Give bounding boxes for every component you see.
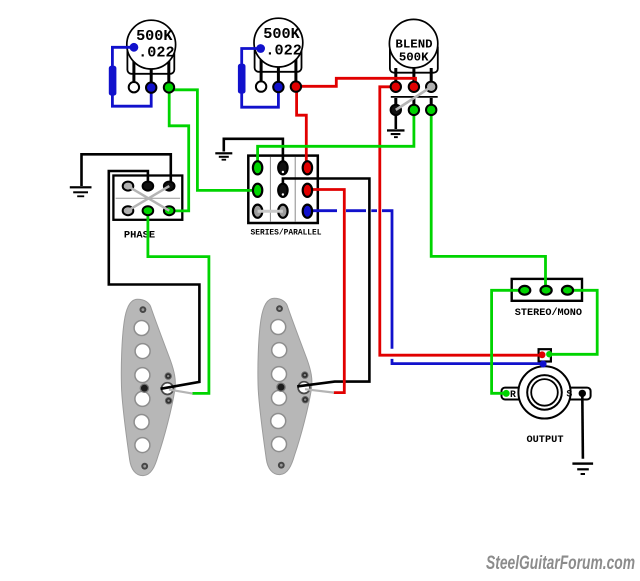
wire gray S1 cross jumper B <box>128 186 170 211</box>
P3 bottom lug 1 <box>391 105 401 115</box>
wire gray P3 bottom-left to top-right lug <box>396 87 431 110</box>
output jack J1 body <box>502 349 591 418</box>
svg-text:SteelGuitarForum.com: SteelGuitarForum.com <box>486 553 635 574</box>
svg-text:500K: 500K <box>399 51 429 65</box>
wire gray PU1 pigtail <box>169 390 193 394</box>
J1 ring blue dot <box>540 361 547 368</box>
S3 lug 1 <box>519 286 530 295</box>
svg-text:.022: .022 <box>265 41 301 59</box>
S2 lug row2 col2 <box>278 184 287 197</box>
wire blue dashed S2 bottom-right lug to J1 ring (blue dot) <box>307 211 541 364</box>
wire green P3 right bottom lug to S3 middle lug <box>431 111 545 288</box>
svg-text:PHASE: PHASE <box>124 229 155 241</box>
S1 lug bottom-left <box>123 206 134 215</box>
potentiometer P2 body (500K) <box>254 18 303 83</box>
wire green P1 right lug to S1 bottom-right lug <box>169 88 189 211</box>
wire gray PU2 pigtail <box>305 389 334 392</box>
ground GND4 (output jack) <box>572 462 593 475</box>
S2 lug row1 col2 <box>278 161 287 174</box>
S2 lug row2 col3 <box>303 184 312 197</box>
S2 lug row3 col1 <box>253 205 262 218</box>
wire black S1 top-middle lug to PU1 black lead <box>109 171 200 389</box>
wire green S3 right lug to J1 tip green dot <box>551 290 598 354</box>
P3 top lug 3 <box>426 82 436 92</box>
P2 lug 3 <box>291 81 301 91</box>
wire black S2 middle-middle lug to PU2 black lead <box>283 179 370 387</box>
S2 black lug notches <box>282 171 284 196</box>
svg-text:R: R <box>510 389 516 400</box>
J1 green dot <box>546 351 552 357</box>
wire green S3 left lug to J1 R tab <box>492 290 525 393</box>
P3 top lug 1 <box>391 82 401 92</box>
wire green S1 bottom-middle lug to PU1 white lead <box>148 212 209 393</box>
potentiometer P3 body (BLEND 500K dual gang) <box>389 19 437 107</box>
S1 lug top-right <box>164 182 175 191</box>
wire black GND1 to S1 top-right lug <box>82 154 171 186</box>
S2 lug row1 col3 <box>303 161 312 174</box>
P2 lug 2 <box>273 82 283 92</box>
pickup PU1 (neck) <box>121 299 175 475</box>
potentiometer P1 body (500K) <box>127 20 176 84</box>
wire blue P1 case dot through C1 to P1 middle lug <box>112 47 151 106</box>
pickup PU2 (bridge) <box>258 298 312 474</box>
J1 S tab black dot <box>579 390 586 397</box>
ground GND1 (left) <box>70 186 92 197</box>
S2 lug row3 col2 <box>278 205 287 218</box>
S1 lug bottom-right <box>164 206 175 215</box>
S1 lug top-left <box>123 182 134 191</box>
ground GND3 (blend pot) <box>387 110 405 138</box>
P2 lug 1 <box>256 81 266 91</box>
J1 tip red dot <box>539 351 546 358</box>
P2 case dot <box>256 44 265 53</box>
J1 R tab green dot <box>503 390 510 397</box>
P3 bottom lug 3 <box>426 105 436 115</box>
P3 top lug 2 <box>409 82 419 92</box>
wire red S2 middle-right lug to PU2 white lead <box>307 190 344 393</box>
wire gray S2 bottom jumper <box>258 210 283 213</box>
S1 lug top-middle <box>143 182 154 191</box>
S3 lug 2 <box>541 286 552 295</box>
P1 lug 3 <box>164 82 174 92</box>
wire gray S1 cross jumper A <box>128 186 170 211</box>
wire green P3 middle bottom lug to S2 top-left lug <box>258 111 414 165</box>
capacitor C2 (.022) <box>238 64 246 94</box>
wire red P3 left top lug to J1 tip (red dot) <box>380 87 541 355</box>
switch S1 PHASE body <box>113 176 182 220</box>
S2 lug row1 col1 <box>253 161 262 174</box>
S1 lug bottom-middle <box>143 206 154 215</box>
ground GND2 (middle) <box>215 152 232 160</box>
wire red P2 right lug to S2 top-right lug <box>297 88 307 166</box>
svg-text:SERIES/PARALLEL: SERIES/PARALLEL <box>250 229 321 238</box>
svg-text:.022: .022 <box>138 43 174 61</box>
svg-text:BLEND: BLEND <box>395 37 432 51</box>
S2 lug row2 col1 <box>253 184 262 197</box>
svg-text:S: S <box>566 388 572 399</box>
switch S2 SERIES/PARALLEL body <box>248 156 317 223</box>
wire black GND2 to S2 top-middle lug <box>224 139 283 166</box>
svg-text:OUTPUT: OUTPUT <box>526 434 563 446</box>
P3 bottom lug 2 <box>409 105 419 115</box>
capacitor C1 (.022) <box>109 66 117 96</box>
wire black J1 sleeve to GND4 <box>581 394 584 459</box>
S2 lug row3 col3 <box>303 205 312 218</box>
wire green P1 right lug to S2 middle-left lug <box>170 90 254 191</box>
wire blue P2 case dot through C2 to P2 middle lug <box>242 49 279 108</box>
switch S3 STEREO/MONO body <box>512 279 582 301</box>
svg-text:STEREO/MONO: STEREO/MONO <box>515 307 582 319</box>
P1 lug 2 <box>146 82 156 92</box>
wire red P2 right lug to P3 middle top lug <box>296 78 416 86</box>
S3 lug 3 <box>562 286 573 295</box>
P1 case dot <box>130 43 139 52</box>
P1 lug 1 <box>129 82 139 92</box>
